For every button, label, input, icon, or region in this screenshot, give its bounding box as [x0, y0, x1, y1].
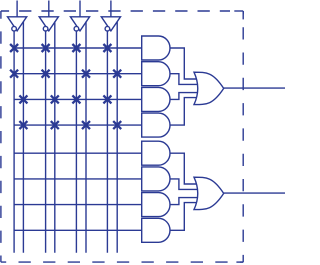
- dashed PLA boundary left border: [0, 11, 2, 262]
- product term row wire P6: [14, 178, 142, 180]
- wire from AND gate A6 output to OR gate O2 input: [170, 179, 197, 190]
- AND gate A7: [142, 193, 170, 217]
- X programmed connection at row P4, column x=86: [82, 121, 90, 129]
- product term row wire P5: [14, 152, 142, 154]
- AND gate A8: [142, 218, 170, 242]
- input I3 wire: [79, 1, 81, 17]
- X programmed connection at row P2, column x=117.2: [113, 70, 121, 78]
- X programmed connection at row P2, column x=14.1: [10, 70, 18, 78]
- inverter bubble of U4: [105, 26, 110, 31]
- wire from AND gate A4 output to OR gate O1 input: [170, 98, 197, 126]
- product term row wire P8: [14, 229, 142, 231]
- X programmed connection at row P1, column x=14.1: [10, 44, 18, 52]
- AND gate A2: [142, 62, 170, 86]
- output wire F2: [224, 192, 285, 194]
- wire from AND gate A3 output to OR gate O1 input: [170, 93, 197, 100]
- true output wire of I1 (column 2): [22, 22, 24, 253]
- true output wire of I4 (column 8): [116, 22, 118, 253]
- wire from AND gate A2 output to OR gate O1 input: [170, 74, 197, 85]
- product term row wire P2: [14, 73, 142, 75]
- X programmed connection at row P1, column x=45.6: [42, 44, 50, 52]
- X programmed connection at row P3, column x=107.4: [103, 95, 111, 103]
- X programmed connection at row P3, column x=54.8: [51, 95, 59, 103]
- X programmed connection at row P1, column x=76.4: [72, 44, 80, 52]
- complement output wire of I4 (column 7): [106, 31, 108, 253]
- output wire F1: [224, 87, 285, 89]
- inverter bubble of U3: [74, 26, 79, 31]
- AND gate A3: [142, 87, 170, 111]
- input I1 wire: [16, 1, 18, 17]
- wire from AND gate A8 output to OR gate O2 input: [170, 203, 197, 231]
- X programmed connection at row P1, column x=107.4: [103, 44, 111, 52]
- complement output wire of I3 (column 5): [75, 31, 77, 253]
- dashed PLA boundary right border: [242, 11, 244, 262]
- product term row wire P4: [14, 124, 142, 126]
- border corner dash top-right horizontal: [234, 10, 243, 12]
- complement output wire of I2 (column 3): [45, 31, 47, 253]
- product term row wire P7: [14, 204, 142, 206]
- input buffer U1 (triangle): [8, 17, 27, 31]
- AND gate A6: [142, 167, 170, 191]
- input buffer U2 (triangle): [39, 17, 58, 31]
- inverter bubble of U1: [12, 26, 17, 31]
- product term row wire P3: [14, 98, 142, 100]
- X programmed connection at row P2, column x=45.6: [42, 70, 50, 78]
- AND gate A1: [142, 36, 170, 60]
- wire from AND gate A5 output to OR gate O2 input: [170, 153, 197, 184]
- wire from AND gate A7 output to OR gate O2 input: [170, 198, 197, 205]
- border corner dash top-right vertical: [242, 11, 244, 19]
- X programmed connection at row P4, column x=54.8: [51, 121, 59, 129]
- AND gate A4: [142, 113, 170, 137]
- border corner dash bottom-right horizontal: [236, 261, 243, 263]
- X programmed connection at row P4, column x=23.4: [19, 121, 27, 129]
- X programmed connection at row P2, column x=86: [82, 70, 90, 78]
- OR gate O1: [194, 72, 224, 104]
- complement output wire of I1 (column 1): [13, 31, 15, 253]
- inverter bubble of U2: [43, 26, 48, 31]
- input buffer U4 (triangle): [101, 17, 120, 31]
- dashed PLA boundary bottom border: [1, 261, 243, 263]
- input buffer U3 (triangle): [70, 17, 89, 31]
- OR gate O2: [194, 177, 224, 209]
- wire from AND gate A1 output to OR gate O1 input: [170, 48, 197, 79]
- true output wire of I3 (column 6): [85, 22, 87, 253]
- X programmed connection at row P3, column x=76.4: [72, 95, 80, 103]
- dashed PLA boundary top border: [1, 10, 230, 12]
- input I4 wire: [110, 1, 112, 17]
- input I2 wire: [48, 1, 50, 17]
- AND gate A5: [142, 141, 170, 165]
- X programmed connection at row P3, column x=23.4: [19, 95, 27, 103]
- true output wire of I2 (column 4): [54, 22, 56, 253]
- product term row wire P1: [14, 47, 142, 49]
- X programmed connection at row P4, column x=117.2: [113, 121, 121, 129]
